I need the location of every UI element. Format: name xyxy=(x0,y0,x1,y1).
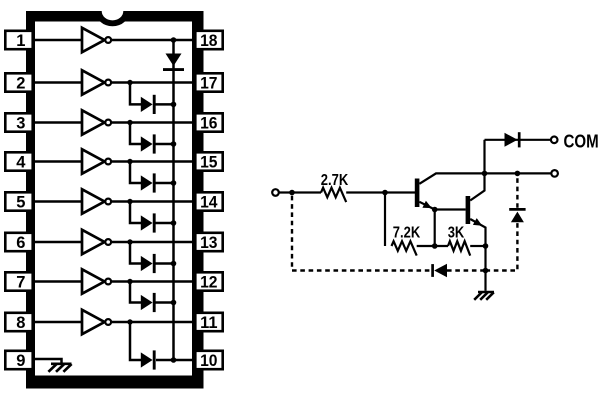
wire output branch channel 8 xyxy=(130,322,141,360)
svg-text:1: 1 xyxy=(16,32,25,50)
diode dashed substrate (output) xyxy=(509,209,525,222)
svg-text:15: 15 xyxy=(200,154,217,172)
wire pin 3 to inverter input xyxy=(30,121,82,124)
wire COM line xyxy=(485,139,551,141)
inverter A7 xyxy=(82,269,111,293)
wire to pin 14 xyxy=(111,200,198,203)
svg-text:2: 2 xyxy=(16,75,25,93)
wire dashed bottom left xyxy=(292,269,431,271)
pin 8 xyxy=(5,313,32,332)
inverter A1 xyxy=(82,28,111,52)
diode dashed substrate (input) xyxy=(433,264,447,278)
node bus junction channel 4 xyxy=(171,180,177,186)
pin 11 xyxy=(195,313,222,332)
wire to pin 13 xyxy=(111,241,198,244)
wire output branch channel 3 xyxy=(130,123,141,145)
wire to pin 12 xyxy=(111,280,198,283)
node output pin row 17 junction xyxy=(127,80,132,85)
diode D7 xyxy=(141,293,154,312)
wire output branch channel 2 xyxy=(130,83,141,105)
wire pin 5 to inverter input xyxy=(30,200,82,203)
COM terminal xyxy=(551,131,599,151)
node base junction xyxy=(382,190,388,196)
svg-text:5: 5 xyxy=(16,194,25,212)
node 3K / ground column junction xyxy=(483,243,489,249)
wire to pin 17 xyxy=(111,81,198,84)
package notch xyxy=(96,11,130,26)
inverter A8 xyxy=(82,310,111,334)
wire pin 8 to inverter input xyxy=(30,321,82,324)
wire to pin 10 xyxy=(156,359,198,362)
svg-text:17: 17 xyxy=(200,75,217,93)
svg-text:3: 3 xyxy=(16,115,25,133)
wire emitter node down xyxy=(434,210,436,247)
IC package outline xyxy=(26,11,204,389)
pin 10 xyxy=(195,351,222,370)
svg-text:7.2K: 7.2K xyxy=(393,224,421,241)
diode D2 xyxy=(141,95,154,114)
node output pin row 15 junction xyxy=(127,159,132,164)
node output pin row 16 junction xyxy=(127,120,132,125)
resistor 7.2K xyxy=(392,224,421,255)
wire pin 7 to inverter input xyxy=(30,280,82,283)
resistor 3K xyxy=(448,224,471,255)
svg-text:16: 16 xyxy=(200,115,217,133)
wire pin 1 to inverter input xyxy=(30,39,82,42)
wire output line xyxy=(485,172,552,174)
wire pin 4 to inverter input xyxy=(30,160,82,163)
wire pin 2 to inverter input xyxy=(30,81,82,84)
output terminal xyxy=(551,170,558,177)
svg-text:12: 12 xyxy=(200,274,217,292)
node Q1 emitter junction xyxy=(432,207,438,213)
wire input to 2.7K xyxy=(279,191,321,193)
wire base junction down xyxy=(384,193,386,247)
ground pin 9 xyxy=(33,359,72,372)
transistor Q2 xyxy=(466,173,486,246)
wire dashed bottom right xyxy=(447,269,486,271)
wire to pin 18 xyxy=(111,39,198,42)
inverter A2 xyxy=(82,70,111,94)
pin 13 xyxy=(195,233,222,252)
diode D8 xyxy=(141,350,154,369)
pin 14 xyxy=(195,192,222,211)
node output pin row 11 junction xyxy=(127,319,132,324)
pin 18 xyxy=(195,31,222,50)
node input junction xyxy=(289,190,295,196)
wire dashed input drop xyxy=(291,196,293,271)
svg-text:6: 6 xyxy=(16,234,25,252)
svg-text:18: 18 xyxy=(200,32,217,50)
transistor Q1 xyxy=(415,173,485,209)
inverter A4 xyxy=(82,149,111,173)
wire output branch channel 6 xyxy=(130,242,141,264)
pin 5 xyxy=(5,192,32,211)
diode D4 xyxy=(141,173,154,192)
node bus junction channel 5 xyxy=(171,220,177,226)
svg-text:9: 9 xyxy=(16,352,25,370)
inverter A6 xyxy=(82,230,111,254)
node bus junction channel 3 xyxy=(171,141,177,147)
node output pin row 13 junction xyxy=(127,239,132,244)
diode to COM xyxy=(505,132,520,147)
wire output branch channel 4 xyxy=(130,162,141,184)
pin 17 xyxy=(195,73,222,92)
pin 7 xyxy=(5,272,32,291)
svg-text:14: 14 xyxy=(200,194,218,212)
diode D5 xyxy=(141,213,154,232)
pin 15 xyxy=(195,152,222,171)
pin 3 xyxy=(5,113,32,132)
ground xyxy=(474,292,494,300)
pin 6 xyxy=(5,233,32,252)
wire to pin 15 xyxy=(111,160,198,163)
pin 16 xyxy=(195,113,222,132)
pin 9 xyxy=(5,351,32,370)
wire output branch channel 7 xyxy=(130,282,141,303)
pin 4 xyxy=(5,152,32,171)
wire diode D3 cathode to bus xyxy=(154,143,173,146)
svg-text:8: 8 xyxy=(16,314,25,332)
node bus junction channel 7 xyxy=(171,300,177,306)
wire pin 6 to inverter input xyxy=(30,241,82,244)
svg-text:2.7K: 2.7K xyxy=(321,172,349,189)
inverter A5 xyxy=(82,189,111,213)
node collector junction xyxy=(482,171,488,177)
diode D6 xyxy=(141,254,154,273)
wire to pin 16 xyxy=(111,121,198,124)
wire diode D7 cathode to bus xyxy=(154,301,173,304)
wire 2.7K to Q1 base xyxy=(346,191,415,193)
inverter A3 xyxy=(82,110,111,134)
diode D3 xyxy=(141,134,154,153)
node output pin row 14 junction xyxy=(127,199,132,204)
node output pin row 12 junction xyxy=(127,279,132,284)
svg-text:COM: COM xyxy=(564,131,599,151)
wire 3K to ground column xyxy=(470,245,485,247)
pin 12 xyxy=(195,272,222,291)
resistor 2.7K xyxy=(321,172,349,202)
wire output branch channel 5 xyxy=(130,202,141,224)
svg-text:4: 4 xyxy=(16,154,26,172)
svg-text:10: 10 xyxy=(200,352,217,370)
pin 2 xyxy=(5,73,32,92)
wire collector node up to COM line xyxy=(483,140,485,174)
node bus junction channel 2 xyxy=(171,102,177,108)
svg-text:7: 7 xyxy=(16,274,25,292)
svg-text:13: 13 xyxy=(200,234,217,252)
wire dashed right column upper xyxy=(516,176,518,208)
wire 7.2K to emitter column xyxy=(417,245,448,247)
node output / dashed junction xyxy=(515,171,521,177)
wire to pin 11 xyxy=(111,321,198,324)
wire dashed to right column xyxy=(486,223,518,271)
diode D1 xyxy=(163,54,184,70)
node ground column / dashed junction xyxy=(483,268,489,274)
wire emitter node to Q2 base xyxy=(435,208,466,210)
wire ground column xyxy=(484,246,486,291)
pin 1 xyxy=(5,31,32,50)
wire COM bus xyxy=(172,40,175,360)
node bus top junction xyxy=(171,37,177,43)
wire diode D2 cathode to bus xyxy=(154,103,173,106)
wire diode D6 cathode to bus xyxy=(154,262,173,265)
node 7.2K / emitter column junction xyxy=(432,243,438,249)
input terminal xyxy=(272,189,279,196)
node bus junction channel 6 xyxy=(171,261,177,267)
node bus junction channel 8 xyxy=(171,357,177,363)
svg-text:11: 11 xyxy=(200,314,217,332)
wire diode D4 cathode to bus xyxy=(154,182,173,185)
svg-text:3K: 3K xyxy=(448,224,465,241)
wire diode D5 cathode to bus xyxy=(154,222,173,225)
